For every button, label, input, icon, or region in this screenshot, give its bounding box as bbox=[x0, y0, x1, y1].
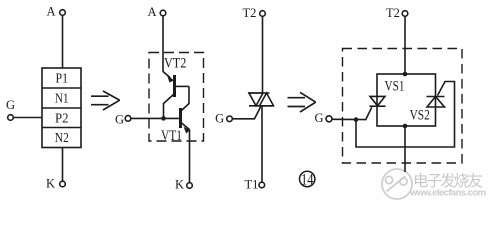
wire G to P2 layer bbox=[13, 117, 42, 119]
layer divider P1/N1 bbox=[42, 87, 81, 89]
layer divider N1/P2 bbox=[42, 107, 81, 109]
watermark logo bbox=[382, 169, 412, 199]
svg-text:N1: N1 bbox=[55, 92, 69, 107]
svg-text:G: G bbox=[115, 113, 124, 127]
gate routing wire to VS2 bbox=[356, 82, 455, 148]
equivalence arrow 2 bbox=[288, 92, 316, 112]
dashed equivalence box bbox=[149, 53, 204, 142]
terminal G of layer stack bbox=[8, 115, 14, 121]
layer divider P2/N2 bbox=[42, 127, 81, 129]
svg-text:VS1: VS1 bbox=[385, 79, 405, 95]
VT2 base lead bbox=[175, 85, 190, 87]
circled figure number 14 bbox=[300, 171, 315, 186]
svg-text:www.elecfans.com: www.elecfans.com bbox=[409, 188, 486, 199]
terminal T2 of triac equivalent bbox=[402, 11, 408, 17]
triac upper bar bbox=[248, 92, 270, 94]
thyristor four-layer stack box bbox=[42, 68, 81, 148]
VS1 cathode bar bbox=[370, 105, 386, 107]
terminal K of thyristor stack bbox=[60, 181, 66, 187]
wire stack to K bbox=[62, 148, 64, 182]
inner wiring box bbox=[377, 74, 436, 126]
svg-text:T2: T2 bbox=[243, 6, 257, 20]
VT2 collector lead bbox=[164, 95, 174, 119]
svg-text:N2: N2 bbox=[55, 131, 69, 146]
svg-text:VS2: VS2 bbox=[410, 108, 430, 124]
equivalence arrow 1 bbox=[91, 91, 120, 110]
wire A to layer stack bbox=[62, 15, 64, 68]
wire T2 to triac bbox=[262, 16, 264, 93]
svg-text:P1: P1 bbox=[56, 72, 69, 87]
outer dashed equivalence box bbox=[343, 49, 463, 164]
junction node G/VT2 collector/VT1 base bbox=[161, 116, 166, 121]
svg-text:14: 14 bbox=[301, 171, 314, 188]
wire G to VT1 base bbox=[131, 117, 181, 119]
wire VT1 emitter to K bbox=[189, 130, 191, 183]
svg-text:G: G bbox=[6, 98, 15, 112]
triac lower bar bbox=[249, 105, 274, 107]
transistor VT2 (PNP) base bar bbox=[173, 75, 176, 97]
svg-text:T1: T1 bbox=[245, 178, 259, 192]
svg-text:G: G bbox=[215, 112, 224, 126]
wire G to VS1 gate bbox=[332, 118, 367, 120]
triac left triangle (pointing down) bbox=[249, 93, 263, 106]
terminal A of thyristor stack bbox=[60, 10, 66, 16]
wire T2 down to inner box bbox=[404, 16, 406, 74]
svg-text:VT1: VT1 bbox=[161, 128, 182, 144]
terminal T2 of triac bbox=[260, 11, 266, 17]
thyristor VS1 triangle (pointing down) bbox=[370, 96, 385, 105]
VS1 gate lead bbox=[366, 107, 372, 119]
thyristor VS2 triangle (pointing up) bbox=[427, 97, 445, 108]
VS2 cathode bar bbox=[427, 96, 445, 98]
svg-text:P2: P2 bbox=[55, 111, 69, 126]
VT2 emitter lead with arrow into base bbox=[163, 72, 170, 78]
wire triac to T1 bbox=[261, 106, 263, 182]
transistor VT1 (NPN) base bar bbox=[179, 108, 182, 128]
svg-text:A: A bbox=[147, 5, 156, 19]
triac right triangle (pointing up) bbox=[260, 93, 274, 106]
wire inner box to bottom terminal bbox=[404, 126, 406, 172]
junction node top bbox=[403, 72, 408, 77]
terminal T1 of triac bbox=[259, 182, 265, 188]
VT1 emitter lead with arrow bbox=[181, 123, 190, 130]
svg-text:A: A bbox=[46, 5, 55, 19]
junction node G bbox=[354, 117, 359, 122]
terminal G of triac bbox=[227, 116, 233, 122]
terminal A of transistor model bbox=[160, 10, 166, 16]
svg-text:T2: T2 bbox=[386, 6, 400, 20]
wire VT2 base to VT1 collector bbox=[182, 86, 190, 110]
svg-text:VT2: VT2 bbox=[164, 56, 186, 72]
triac gate wire bbox=[232, 106, 261, 119]
terminal G of transistor model bbox=[125, 116, 131, 122]
svg-text:G: G bbox=[314, 111, 323, 125]
wire A down to VT2 emitter bbox=[162, 16, 164, 72]
svg-text:K: K bbox=[175, 178, 184, 192]
junction node bottom bbox=[403, 124, 408, 129]
terminal G of triac equivalent bbox=[326, 116, 332, 122]
svg-text:K: K bbox=[46, 177, 55, 191]
terminal K of transistor model bbox=[187, 183, 193, 189]
